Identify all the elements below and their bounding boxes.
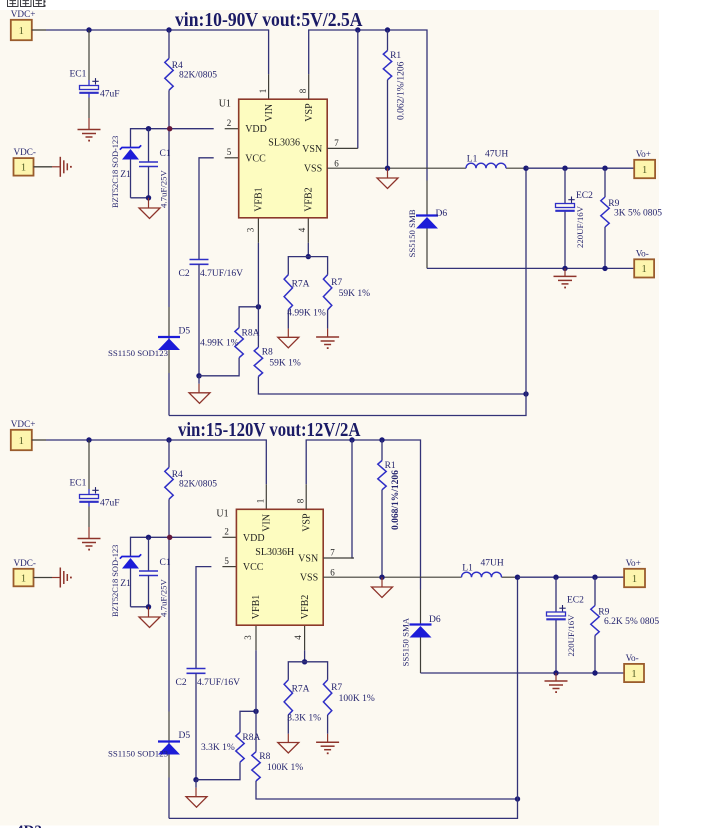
diode D6 SS5150 SMA xyxy=(410,623,432,625)
svg-text:R8: R8 xyxy=(262,348,273,358)
junction VSN riser xyxy=(349,437,354,442)
svg-text:5: 5 xyxy=(224,556,229,566)
wire VSP rail to D6 column xyxy=(306,440,420,590)
junction C2 bottom xyxy=(196,373,201,378)
pin 3 stub xyxy=(257,218,259,243)
ground triangle under C1 xyxy=(139,208,160,219)
svg-text:1: 1 xyxy=(642,264,647,275)
ground triangle under C1 xyxy=(139,617,160,628)
svg-text:C2: C2 xyxy=(179,269,190,279)
svg-text:3.3K 1%: 3.3K 1% xyxy=(287,714,321,724)
header text 原理图: xyxy=(8,0,19,7)
wire R8A bottom row xyxy=(199,358,239,376)
wire R4/D5 column xyxy=(168,90,170,307)
svg-text:1: 1 xyxy=(631,669,636,680)
svg-text:VSP: VSP xyxy=(304,103,315,122)
svg-text:59K 1%: 59K 1% xyxy=(339,289,370,299)
op IC U1 SL3036 xyxy=(239,99,328,218)
svg-text:C1: C1 xyxy=(160,558,171,568)
ground earth EC2 xyxy=(555,673,557,681)
svg-text:EC1: EC1 xyxy=(70,70,87,80)
svg-text:Vo+: Vo+ xyxy=(636,149,651,159)
junction C1 bottom xyxy=(146,604,151,609)
svg-text:R1: R1 xyxy=(385,461,396,471)
svg-text:Vo-: Vo- xyxy=(636,248,649,258)
svg-text:VDC+: VDC+ xyxy=(11,9,36,19)
wire stub to ground xyxy=(148,198,150,208)
pin 2 stub xyxy=(222,536,236,538)
inductor L1 47UH xyxy=(466,163,506,168)
svg-text:1: 1 xyxy=(256,499,266,504)
junction EC2 bottom xyxy=(553,670,558,675)
svg-text:SS5150 SMA: SS5150 SMA xyxy=(401,617,411,666)
resistor R8A xyxy=(236,732,244,762)
diode D5 SS1150 xyxy=(158,740,180,742)
svg-text:VFB2: VFB2 xyxy=(304,187,315,211)
svg-text:VSP: VSP xyxy=(301,513,312,532)
port VDC+ xyxy=(11,430,32,450)
svg-text:Z1: Z1 xyxy=(120,579,131,589)
ground triangle under R7A xyxy=(278,337,299,348)
junction L1 output xyxy=(515,575,520,580)
svg-text:VDD: VDD xyxy=(245,124,267,135)
wire VDC+ stub xyxy=(32,29,46,31)
svg-text:82K/0805: 82K/0805 xyxy=(179,71,217,81)
svg-text:vin:15-120V vout:12V/2A: vin:15-120V vout:12V/2A xyxy=(178,420,361,441)
svg-text:Z1: Z1 xyxy=(120,170,131,180)
svg-text:59K 1%: 59K 1% xyxy=(269,358,300,368)
svg-text:4.99K 1%: 4.99K 1% xyxy=(287,308,326,318)
svg-text:VFB1: VFB1 xyxy=(254,187,265,211)
wire R4/D5 column xyxy=(168,499,170,711)
ground triangle VSS xyxy=(372,587,393,598)
ground earth under R7 xyxy=(316,741,339,743)
ground earth VDC- xyxy=(59,157,61,177)
wire output row xyxy=(526,167,634,169)
resistor R7 xyxy=(323,275,331,310)
svg-text:D6: D6 xyxy=(436,209,448,219)
wire stub to ground xyxy=(198,376,200,384)
zener diode Z1 BZTS2C18 xyxy=(120,145,141,149)
wire VFB1 pin 3 column xyxy=(255,650,257,752)
junction VDD/D5 column xyxy=(167,126,172,131)
svg-text:C2: C2 xyxy=(176,678,187,688)
svg-text:Vo+: Vo+ xyxy=(626,558,641,568)
wire stub to ground xyxy=(195,780,197,788)
ground earth VDC- xyxy=(59,568,61,588)
svg-text:VSS: VSS xyxy=(304,164,322,175)
junction R4 top xyxy=(166,437,171,442)
junction EC2 bottom xyxy=(562,266,567,271)
op IC U1 SL3036H xyxy=(236,509,323,625)
resistor R8 xyxy=(252,752,260,781)
ground triangle under R7A xyxy=(278,743,299,754)
svg-text:EC1: EC1 xyxy=(70,479,87,489)
svg-text:4.7UF/16V: 4.7UF/16V xyxy=(197,678,240,688)
svg-text:vin:10-90V vout:5V/2.5A: vin:10-90V vout:5V/2.5A xyxy=(175,10,363,31)
svg-text:R9: R9 xyxy=(608,199,619,209)
svg-text:220UF/16V: 220UF/16V xyxy=(575,205,585,248)
pin 5 stub xyxy=(225,157,239,159)
wire VFB1 pin 3 column xyxy=(257,243,259,347)
svg-text:8: 8 xyxy=(298,88,308,93)
junction R1 top xyxy=(379,437,384,442)
svg-text:100K 1%: 100K 1% xyxy=(339,694,375,704)
resistor R9 3K 5% 0805 xyxy=(604,168,606,197)
capacitor EC1 47uF xyxy=(80,495,99,499)
junction EC1 top xyxy=(86,437,91,442)
svg-text:3.3K 1%: 3.3K 1% xyxy=(201,743,235,753)
pin 7 stub xyxy=(327,147,358,149)
pin 3 stub xyxy=(255,625,257,650)
pin 4 stub xyxy=(304,625,306,650)
junction VFB1/R8A xyxy=(256,304,261,309)
svg-text:SS1150 SOD123: SS1150 SOD123 xyxy=(108,348,169,358)
junction R1 top xyxy=(385,27,390,32)
inductor L1 47UH xyxy=(462,572,502,577)
wire VDC+ stub xyxy=(32,439,46,441)
wire R7A-R7 bridge xyxy=(288,662,327,680)
svg-text:R7: R7 xyxy=(331,683,342,693)
wire EC1 branch xyxy=(88,30,90,80)
junction C1 bottom xyxy=(146,195,151,200)
wire VCC to C2 xyxy=(196,567,211,669)
ground earth under R7 xyxy=(316,336,339,338)
svg-text:VSS: VSS xyxy=(300,573,318,584)
svg-text:6.2K 5% 0805: 6.2K 5% 0805 xyxy=(604,617,659,627)
svg-text:3: 3 xyxy=(243,635,253,640)
pin 2 stub xyxy=(225,128,239,130)
wire VSS row xyxy=(323,576,461,578)
port Vo+ xyxy=(624,576,630,578)
junction VSN riser xyxy=(355,27,360,32)
svg-text:6: 6 xyxy=(334,159,339,169)
svg-text:2: 2 xyxy=(227,118,232,128)
svg-text:7: 7 xyxy=(330,548,335,558)
svg-text:R4: R4 xyxy=(172,470,183,480)
port VDC- xyxy=(14,158,34,176)
svg-text:C1: C1 xyxy=(160,149,171,159)
svg-text:1: 1 xyxy=(21,163,26,174)
ground triangle under C2 xyxy=(186,797,207,808)
svg-text:D6: D6 xyxy=(429,615,441,625)
port Vo- xyxy=(624,672,630,674)
junction EC1 top xyxy=(86,27,91,32)
svg-text:3: 3 xyxy=(246,227,256,232)
wire output return rail xyxy=(169,577,518,818)
wire stub to ground xyxy=(387,168,389,178)
capacitor EC2 220UF/16V xyxy=(555,577,557,612)
svg-text:47UH: 47UH xyxy=(481,559,504,569)
svg-text:VSN: VSN xyxy=(298,554,318,565)
wire VSS row xyxy=(327,167,466,169)
svg-text:4.99K 1%: 4.99K 1% xyxy=(200,338,239,348)
svg-text:L1: L1 xyxy=(467,155,478,165)
ground triangle VSS xyxy=(377,178,398,189)
svg-text:VCC: VCC xyxy=(243,562,264,573)
svg-text:R7: R7 xyxy=(331,278,342,288)
svg-text:BZT52C18 SOD-123: BZT52C18 SOD-123 xyxy=(111,136,120,208)
resistor R4 82K/0805 xyxy=(168,30,170,58)
wire VDD row xyxy=(131,537,212,556)
zener diode Z1 BZTS2C18 xyxy=(120,554,141,558)
capacitor EC2 220UF/16V xyxy=(564,168,566,203)
svg-text:VDC-: VDC- xyxy=(14,558,36,568)
svg-text:5: 5 xyxy=(227,147,232,157)
svg-text:R9: R9 xyxy=(598,608,609,618)
svg-text:U1: U1 xyxy=(216,509,228,520)
wire VFB2 pin 4 column xyxy=(307,243,309,257)
svg-text:R7A: R7A xyxy=(292,279,310,289)
svg-text:R4: R4 xyxy=(172,61,183,71)
wire stub to ground xyxy=(148,607,150,617)
svg-text:VFB2: VFB2 xyxy=(300,595,311,619)
wire input rail to VIN xyxy=(46,440,266,484)
svg-text:EC2: EC2 xyxy=(576,191,593,201)
wire R7A-R7 bridge xyxy=(288,257,327,275)
svg-text:0.062/1%/1206: 0.062/1%/1206 xyxy=(397,61,407,120)
pin 1 stub xyxy=(265,484,267,509)
junction R1 bottom xyxy=(379,575,384,580)
wire VSN pin 7 xyxy=(357,30,359,148)
junction R9 bottom xyxy=(602,266,607,271)
junction C2 bottom xyxy=(193,777,198,782)
resistor R7 xyxy=(323,680,331,715)
resistor R8A xyxy=(235,328,243,358)
ground earth EC2 xyxy=(564,268,566,276)
ground earth EC1 xyxy=(78,129,101,131)
pin 4 stub xyxy=(307,218,309,243)
svg-text:Vo-: Vo- xyxy=(626,653,639,663)
wire C1 bottom row xyxy=(131,606,149,608)
svg-text:4.7uF/25V: 4.7uF/25V xyxy=(159,169,169,208)
wire EC1 branch xyxy=(88,440,90,489)
resistor R1 0.068/1%/1206 xyxy=(381,440,383,461)
junction VDD/D5 column xyxy=(167,535,172,540)
capacitor C2 4.7UF/16V xyxy=(187,668,206,670)
svg-text:VFB1: VFB1 xyxy=(251,595,262,619)
svg-text:1: 1 xyxy=(19,436,24,447)
svg-text:6: 6 xyxy=(330,568,335,578)
wire output return rail xyxy=(169,168,526,415)
diode D6 SS5150 SMB xyxy=(416,214,438,216)
junction R9 top xyxy=(592,575,597,580)
svg-text:R8: R8 xyxy=(259,752,270,762)
svg-text:SS1150 SOD123: SS1150 SOD123 xyxy=(108,749,169,759)
wire VSN pin 7 xyxy=(352,440,354,558)
ground triangle under C2 xyxy=(189,393,210,404)
svg-text:0.068/1%/1206: 0.068/1%/1206 xyxy=(391,470,401,530)
junction R9 bottom xyxy=(592,670,597,675)
svg-text:R8A: R8A xyxy=(242,733,260,743)
svg-text:VCC: VCC xyxy=(245,153,266,164)
junction VFB1/R8A xyxy=(253,709,258,714)
junction R4 top xyxy=(166,27,171,32)
pin 7 stub xyxy=(323,557,354,559)
svg-text:4.7uF/25V: 4.7uF/25V xyxy=(159,578,169,617)
capacitor C1 4.7uF/25V xyxy=(148,537,150,571)
capacitor C1 4.7uF/25V xyxy=(148,129,150,162)
svg-text:SS5150 SMB: SS5150 SMB xyxy=(407,209,417,257)
svg-text:VIN: VIN xyxy=(264,104,275,122)
junction bottom right xyxy=(523,391,528,396)
svg-text:1: 1 xyxy=(632,574,637,585)
wire R8A bottom row xyxy=(196,762,240,780)
junction C1 top xyxy=(146,126,151,131)
svg-text:VIN: VIN xyxy=(262,514,273,532)
svg-text:47uF: 47uF xyxy=(100,499,120,509)
svg-text:SL3036H: SL3036H xyxy=(255,547,294,558)
svg-text:VSN: VSN xyxy=(302,144,322,155)
wire VCC to C2 xyxy=(199,158,214,260)
wire VDC- stub xyxy=(34,577,53,579)
junction R9 top xyxy=(602,166,607,171)
junction R1 bottom xyxy=(385,166,390,171)
svg-text:4: 4 xyxy=(297,227,307,232)
resistor R9 6.2K 5% 0805 xyxy=(594,577,596,605)
wire VFB2 pin 4 column xyxy=(304,650,306,662)
junction VFB2 divider xyxy=(306,254,311,259)
wire VDC- stub xyxy=(34,166,53,168)
svg-text:VDD: VDD xyxy=(243,533,265,544)
ground earth EC1 xyxy=(78,538,101,540)
port Vo- xyxy=(634,267,640,269)
port VDC- xyxy=(14,569,34,587)
svg-text:D5: D5 xyxy=(179,731,191,741)
junction bottom right xyxy=(515,796,520,801)
svg-text:1: 1 xyxy=(258,89,268,94)
pin 8 stub xyxy=(305,484,307,509)
svg-text:BZT52C18 SOD-123: BZT52C18 SOD-123 xyxy=(111,545,120,617)
svg-text:R8A: R8A xyxy=(242,328,260,338)
svg-text:1: 1 xyxy=(21,573,26,584)
svg-text:VDC-: VDC- xyxy=(14,147,36,157)
svg-text:4.7UF/16V: 4.7UF/16V xyxy=(200,269,243,279)
pin 1 stub xyxy=(268,74,270,99)
svg-text:47UH: 47UH xyxy=(485,150,508,160)
port Vo+ xyxy=(634,167,640,169)
svg-text:1: 1 xyxy=(19,26,24,37)
svg-text:4D2: 4D2 xyxy=(16,823,42,828)
capacitor EC1 47uF xyxy=(80,86,99,90)
pin 5 stub xyxy=(222,566,236,568)
svg-text:82K/0805: 82K/0805 xyxy=(179,480,217,490)
wire VSP rail to D6 column xyxy=(309,30,427,181)
junction VFB2 divider xyxy=(302,659,307,664)
pin 8 stub xyxy=(308,74,310,99)
diode D5 SS1150 xyxy=(158,336,180,338)
resistor R7A xyxy=(284,680,292,715)
svg-text:4: 4 xyxy=(293,635,303,640)
svg-text:VDC+: VDC+ xyxy=(11,419,36,429)
capacitor C2 4.7UF/16V xyxy=(190,259,209,261)
svg-text:1: 1 xyxy=(642,165,647,176)
svg-text:U1: U1 xyxy=(219,99,231,110)
wire C1 bottom row xyxy=(131,197,149,199)
wire VDD row xyxy=(131,129,214,148)
wire output row xyxy=(518,576,625,578)
svg-text:8: 8 xyxy=(295,498,305,503)
junction C1 top xyxy=(146,535,151,540)
svg-text:EC2: EC2 xyxy=(567,596,584,606)
port VDC+ xyxy=(11,20,32,40)
junction L1 output xyxy=(523,166,528,171)
svg-text:47uF: 47uF xyxy=(100,90,120,100)
junction EC2 top xyxy=(553,575,558,580)
svg-text:7: 7 xyxy=(334,138,339,148)
svg-text:100K 1%: 100K 1% xyxy=(267,763,303,773)
svg-text:R1: R1 xyxy=(390,51,401,61)
wire stub to ground xyxy=(381,577,383,587)
svg-text:L1: L1 xyxy=(462,564,473,574)
svg-text:2: 2 xyxy=(224,527,229,537)
svg-text:D5: D5 xyxy=(179,327,191,337)
svg-text:SL3036: SL3036 xyxy=(268,137,300,148)
svg-text:220UF/16V: 220UF/16V xyxy=(566,614,576,657)
resistor R7A xyxy=(284,275,292,310)
svg-text:R7A: R7A xyxy=(292,685,310,695)
junction EC2 top xyxy=(562,166,567,171)
resistor R4 82K/0805 xyxy=(168,440,170,467)
resistor R1 0.062/1%/1206 xyxy=(387,30,389,51)
wire input rail to VIN xyxy=(46,30,269,74)
svg-text:3K 5% 0805: 3K 5% 0805 xyxy=(614,209,662,219)
resistor R8 xyxy=(254,347,262,376)
